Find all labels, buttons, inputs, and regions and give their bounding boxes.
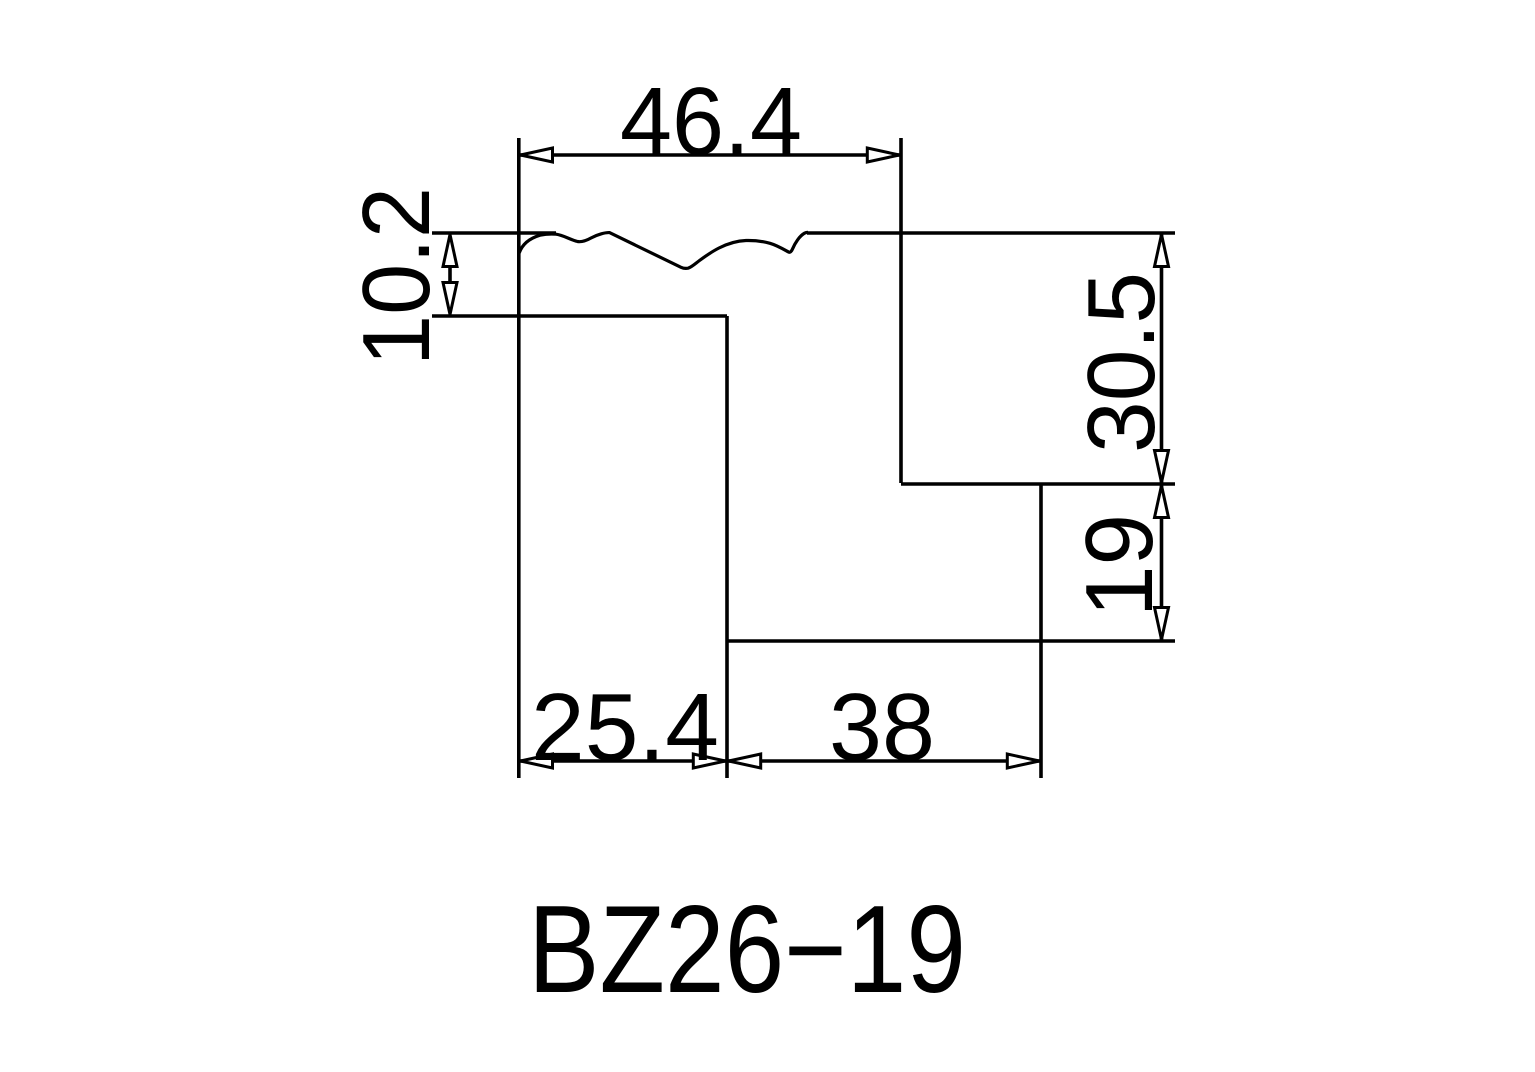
svg-text:BZ26−19: BZ26−19: [528, 881, 966, 1019]
svg-text:30.5: 30.5: [1068, 272, 1175, 453]
wire: extension line upper-left of 10.2 at y=233: [432, 231, 556, 235]
arrow 30.5 down: [1155, 451, 1169, 483]
svg-text:38: 38: [829, 674, 935, 781]
arrow 46.4 left: [521, 148, 553, 162]
wire: step edge y=484 with extension right: [901, 482, 1175, 486]
arrow 25.4 left: [521, 754, 553, 768]
arrow 19 up: [1155, 486, 1169, 518]
wire: inner vertical edge x=728 with extension down: [725, 316, 729, 778]
arrow 25.4 right: [693, 754, 725, 768]
arrow 19 down: [1155, 608, 1169, 640]
wire: profile top edge and extension to right dimension: [807, 231, 1175, 235]
arrow 10.2 up: [443, 235, 457, 267]
arrow 10.2 down: [443, 283, 457, 315]
arrow 38 left: [729, 754, 761, 768]
svg-text:46.4: 46.4: [620, 68, 802, 175]
wire: left vertical edge x=518 with extensions: [517, 138, 521, 778]
arrow 38 right: [1007, 754, 1039, 768]
svg-text:25.4: 25.4: [531, 674, 719, 781]
wire: bottom dimension line 25.4/38: [519, 759, 1041, 763]
wire: lower right vertical edge x=1039 with extension down: [1039, 484, 1043, 778]
wire: profile wavy top face: [519, 232, 808, 268]
arrow 46.4 right: [867, 148, 899, 162]
wire: lip bottom edge y=316 with extension to left: [432, 314, 727, 318]
wire: profile bottom edge y=641 with extension right: [727, 639, 1175, 643]
arrow 30.5 up: [1155, 235, 1169, 267]
wire: right dimension line 30.5/19: [1160, 233, 1164, 641]
svg-text:10.2: 10.2: [343, 187, 450, 366]
wire: right vertical edge x=900: [899, 138, 903, 483]
wire: top dimension line 46.4: [519, 153, 901, 157]
svg-text:19: 19: [1066, 514, 1173, 617]
wire: 10.2 dimension connector: [448, 266, 452, 283]
